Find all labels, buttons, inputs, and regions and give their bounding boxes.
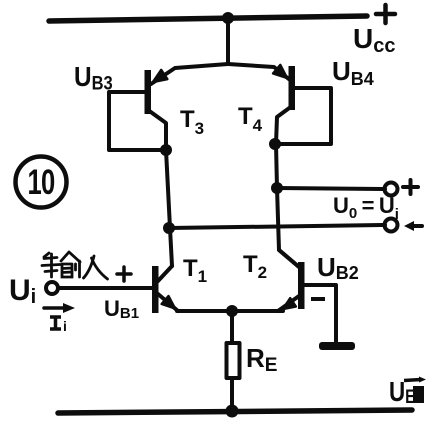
svg-text:Ui: Ui — [9, 274, 36, 308]
minus sign at T2 base — [311, 297, 325, 301]
emitter bus wire T1-T2 — [177, 309, 283, 313]
svg-text:UB3: UB3 — [74, 60, 113, 93]
power rail +Ucc — [49, 16, 367, 21]
+ output terminal — [385, 183, 398, 196]
svg-text:UB4: UB4 — [332, 56, 374, 89]
label shuru (Chinese input) — [42, 252, 108, 279]
svg-text:UB1: UB1 — [104, 296, 139, 322]
plus sign at output — [403, 180, 418, 194]
wire to T3 emitter — [151, 64, 228, 84]
resistor RE — [227, 343, 240, 378]
wire from rail to emitters of T3 T4 — [226, 18, 230, 63]
wire input to T1 base — [58, 286, 152, 290]
wire T3 collector down to T1 collector — [166, 150, 172, 266]
svg-text:10: 10 — [28, 162, 55, 202]
label Ii — [50, 317, 61, 329]
node on Ucc rail — [222, 12, 234, 24]
wire to - output terminal — [169, 225, 385, 228]
wire to T4 emitter — [228, 64, 290, 80]
svg-text:UB2: UB2 — [317, 252, 359, 283]
svg-text:i: i — [63, 318, 67, 334]
svg-text:T4: T4 — [238, 103, 263, 135]
input terminal circle — [46, 282, 58, 294]
wire node to RE — [230, 311, 234, 343]
power rail -Uee — [58, 410, 412, 413]
transistor T1 — [152, 266, 178, 313]
wire output node down to T2 collector — [277, 188, 299, 267]
transistor T3 — [109, 70, 167, 150]
plus sign at input — [117, 267, 131, 281]
node at - output tap — [163, 222, 175, 234]
ground symbol at T2 base — [319, 342, 355, 350]
wire to + output terminal — [277, 188, 385, 189]
- output terminal — [385, 219, 398, 232]
node at T4 collector-base tie — [269, 138, 281, 150]
svg-text:T3: T3 — [180, 106, 204, 138]
svg-text:T2: T2 — [243, 251, 267, 282]
node at T3 collector-base tie — [160, 144, 172, 156]
node at RE tap — [226, 305, 238, 317]
node at + output tap — [271, 182, 283, 194]
svg-text:Ucc: Ucc — [353, 23, 395, 57]
plus sign of Ucc terminal — [376, 5, 395, 23]
node on bottom rail — [226, 405, 239, 418]
wire RE to bottom rail — [230, 378, 234, 411]
svg-text:T1: T1 — [183, 255, 207, 286]
transistor T4 — [273, 65, 331, 144]
svg-text:RE: RE — [246, 343, 277, 376]
input arrow Ii — [44, 306, 66, 310]
wire T4 collector down to output node — [276, 144, 277, 188]
figure label 10 — [16, 157, 67, 208]
transistor T2 — [278, 250, 336, 342]
arrow after - terminal — [409, 224, 422, 228]
